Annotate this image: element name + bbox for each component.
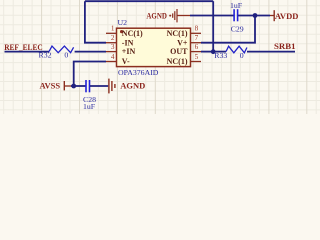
svg-text:R33: R33 [214,51,227,60]
ground AGND (bottom) [109,79,115,94]
wire: V- to bottom rail [74,62,106,87]
svg-text:NC(1): NC(1) [167,57,188,66]
wire: C29 to AVDD [238,15,270,17]
pin 5 NC(1) [191,61,202,63]
svg-text:1uF: 1uF [83,102,96,111]
power port AVDD [270,15,274,17]
pin 7 V+ [191,42,202,44]
svg-text:AGND: AGND [146,11,167,21]
svg-text:NC(1): NC(1) [122,29,143,38]
capacitor C29 [233,9,235,21]
junction dot OUT/R33 [211,49,216,54]
junction dot AVSS rail [71,84,76,89]
svg-text:5: 5 [195,53,199,61]
pin1 marker [120,30,123,33]
pin 1 NC(1) [106,32,117,34]
svg-text:AGND: AGND [120,81,145,91]
svg-text:1uF: 1uF [230,1,243,10]
svg-text:SRB1: SRB1 [274,41,296,51]
resistor R32 [49,46,74,53]
pin 6 OUT [191,51,202,53]
svg-text:OPA376AID: OPA376AID [118,68,159,77]
junction dot AVDD [253,13,258,18]
svg-text:2: 2 [111,34,115,42]
svg-text:OUT: OUT [170,47,188,56]
svg-text:U2: U2 [118,18,128,27]
pin 2 -IN [106,42,117,44]
wire: R32 to +IN [75,51,106,53]
capacitor C28 [85,80,87,92]
svg-text:C29: C29 [231,25,244,34]
svg-text:V+: V+ [177,38,188,47]
wire: feedback left vertical into pin2 [85,1,106,43]
svg-text:AVDD: AVDD [275,11,298,21]
wire: pin6 OUT to dot [201,51,213,53]
wire: feedback top rail [85,0,213,2]
svg-text:3: 3 [111,43,115,51]
svg-text:R32: R32 [39,51,52,60]
svg-text:0: 0 [240,51,244,60]
wire: AVSS to C28 [71,85,86,87]
wire: pin7 V+ up to AVDD rail [201,16,255,43]
svg-text:8: 8 [195,25,199,33]
svg-text:6: 6 [195,43,199,51]
pin 4 V- [106,61,117,63]
svg-text:NC(1): NC(1) [167,29,188,38]
svg-text:-IN: -IN [122,38,134,47]
svg-text:7: 7 [195,34,199,42]
wire: OUT vertical [212,1,214,52]
op-amp U2 body [117,28,191,66]
wire: AGND to C29 [190,15,234,17]
svg-text:V-: V- [122,57,130,66]
svg-text:0: 0 [64,51,68,60]
svg-text:AVSS: AVSS [40,81,61,91]
resistor R33 [226,46,247,53]
wire: C28 to AGND [90,85,108,87]
svg-text:4: 4 [111,53,115,61]
wire: dot to R33 [213,51,226,53]
svg-text:1: 1 [111,25,115,33]
pin 3 +IN [106,51,117,53]
svg-text:+IN: +IN [122,47,136,56]
wire: REF_ELEC to R32 [5,51,50,53]
wire: R33 to SRB1 [247,51,295,53]
pin 8 NC(1) [191,32,202,34]
